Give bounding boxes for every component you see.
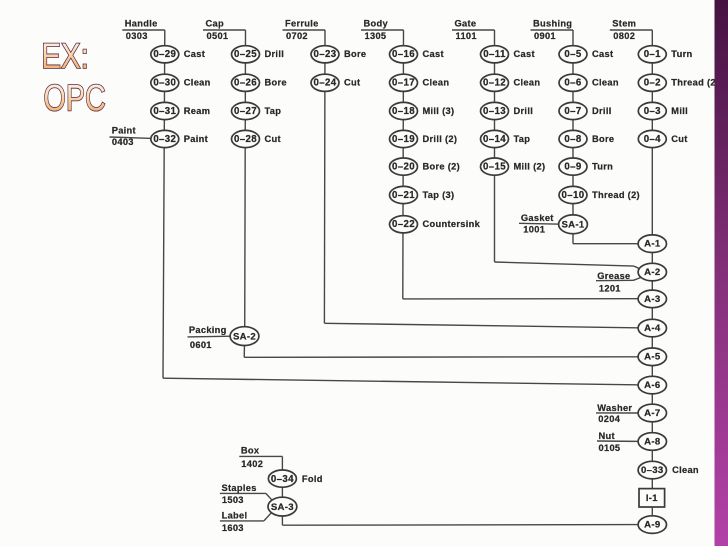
svg-text:Nut: Nut xyxy=(599,431,615,441)
svg-text:0–17: 0–17 xyxy=(392,78,415,89)
svg-text:Clean: Clean xyxy=(423,78,450,88)
svg-text:Tap (3): Tap (3) xyxy=(423,190,455,200)
svg-text:Packing: Packing xyxy=(189,325,227,335)
svg-text:0–15: 0–15 xyxy=(483,161,506,172)
svg-text:Countersink: Countersink xyxy=(423,219,481,229)
svg-text:0–19: 0–19 xyxy=(392,134,415,145)
svg-text:1402: 1402 xyxy=(241,459,263,469)
svg-text:0–32: 0–32 xyxy=(153,134,176,145)
svg-text:0–1: 0–1 xyxy=(644,49,661,60)
svg-text:Bushing: Bushing xyxy=(533,18,572,28)
svg-text:0204: 0204 xyxy=(598,414,620,424)
svg-text:Bore (2): Bore (2) xyxy=(423,161,461,171)
svg-text:Cast: Cast xyxy=(592,49,613,59)
svg-text:Fold: Fold xyxy=(302,474,323,484)
svg-text:Body: Body xyxy=(364,18,389,28)
svg-text:SA-1: SA-1 xyxy=(561,220,584,231)
svg-text:0901: 0901 xyxy=(534,31,556,41)
svg-text:Ream: Ream xyxy=(184,106,211,116)
svg-text:Grease: Grease xyxy=(597,271,630,281)
svg-text:0105: 0105 xyxy=(599,443,621,453)
svg-text:0–2: 0–2 xyxy=(644,78,661,89)
svg-text:Bore: Bore xyxy=(265,78,287,88)
svg-text:Label: Label xyxy=(222,511,248,521)
svg-text:0–6: 0–6 xyxy=(564,78,581,89)
svg-text:0–21: 0–21 xyxy=(392,190,415,201)
svg-text:1001: 1001 xyxy=(523,225,545,235)
svg-text:0–13: 0–13 xyxy=(483,106,506,117)
svg-text:Ferrule: Ferrule xyxy=(285,18,319,28)
svg-text:Tap: Tap xyxy=(514,134,531,144)
svg-text:Drill: Drill xyxy=(592,106,612,116)
svg-text:1305: 1305 xyxy=(365,31,387,41)
svg-text:Cut: Cut xyxy=(265,134,281,144)
svg-text:1201: 1201 xyxy=(599,284,621,294)
svg-text:Turn: Turn xyxy=(671,49,692,59)
svg-text:0702: 0702 xyxy=(286,31,308,41)
svg-text:Thread (2): Thread (2) xyxy=(671,78,719,88)
svg-text:Mill (2): Mill (2) xyxy=(514,161,546,171)
svg-text:Clean: Clean xyxy=(514,78,541,88)
svg-text:A-8: A-8 xyxy=(644,436,661,447)
svg-text:0601: 0601 xyxy=(190,340,212,350)
svg-text:Clean: Clean xyxy=(672,465,699,475)
svg-text:1101: 1101 xyxy=(456,31,477,41)
svg-text:A-1: A-1 xyxy=(644,239,661,250)
svg-text:Cast: Cast xyxy=(184,49,205,59)
svg-text:Paint: Paint xyxy=(184,134,208,144)
svg-text:Clean: Clean xyxy=(184,78,211,88)
svg-text:0–16: 0–16 xyxy=(392,49,415,60)
svg-text:Cut: Cut xyxy=(344,78,360,88)
svg-text:0–27: 0–27 xyxy=(234,106,257,117)
svg-text:1503: 1503 xyxy=(222,495,244,505)
svg-text:Bore: Bore xyxy=(592,134,614,144)
svg-text:A-2: A-2 xyxy=(644,267,660,278)
svg-text:0–10: 0–10 xyxy=(562,190,585,201)
svg-text:Tap: Tap xyxy=(265,106,282,116)
svg-text:0–7: 0–7 xyxy=(564,106,581,117)
svg-text:Gasket: Gasket xyxy=(521,213,554,223)
svg-text:0802: 0802 xyxy=(613,31,635,41)
svg-text:Handle: Handle xyxy=(125,18,158,28)
svg-text:Staples: Staples xyxy=(222,483,257,493)
svg-text:0–26: 0–26 xyxy=(234,78,257,89)
svg-text:Mill: Mill xyxy=(671,106,688,116)
svg-text:0–8: 0–8 xyxy=(564,134,581,145)
svg-text:Washer: Washer xyxy=(597,403,632,413)
svg-text:EX:: EX: xyxy=(41,37,89,76)
svg-text:0403: 0403 xyxy=(112,137,134,147)
svg-text:0–23: 0–23 xyxy=(314,49,337,60)
svg-text:Cast: Cast xyxy=(514,49,535,59)
svg-text:SA-3: SA-3 xyxy=(271,502,294,513)
svg-text:0–14: 0–14 xyxy=(483,134,506,145)
svg-text:0–24: 0–24 xyxy=(314,78,337,89)
svg-text:Stem: Stem xyxy=(612,18,636,28)
svg-text:1603: 1603 xyxy=(222,523,244,533)
svg-text:0–34: 0–34 xyxy=(271,474,294,485)
svg-text:Bore: Bore xyxy=(344,49,366,59)
svg-text:0–3: 0–3 xyxy=(644,106,661,117)
svg-text:0–25: 0–25 xyxy=(234,49,257,60)
svg-text:0–12: 0–12 xyxy=(483,78,506,89)
svg-text:I-1: I-1 xyxy=(646,492,658,503)
svg-text:A-4: A-4 xyxy=(644,323,661,334)
svg-text:Drill: Drill xyxy=(265,49,285,59)
svg-text:0–29: 0–29 xyxy=(153,49,176,60)
svg-text:Thread (2): Thread (2) xyxy=(592,190,640,200)
svg-text:0–28: 0–28 xyxy=(234,134,257,145)
svg-text:0–4: 0–4 xyxy=(644,134,661,145)
svg-text:A-3: A-3 xyxy=(644,294,660,305)
svg-text:SA-2: SA-2 xyxy=(233,331,256,342)
svg-text:OPC: OPC xyxy=(44,78,106,119)
svg-text:Gate: Gate xyxy=(455,18,477,28)
svg-text:A-6: A-6 xyxy=(644,380,660,391)
svg-text:0–18: 0–18 xyxy=(392,106,415,117)
svg-text:Turn: Turn xyxy=(592,161,613,171)
svg-text:0–5: 0–5 xyxy=(564,49,581,60)
svg-text:Cast: Cast xyxy=(423,49,444,59)
svg-text:A-7: A-7 xyxy=(644,408,660,419)
svg-text:A-5: A-5 xyxy=(644,352,661,363)
svg-text:Cap: Cap xyxy=(206,18,224,28)
svg-text:Cut: Cut xyxy=(671,134,687,144)
svg-text:Paint: Paint xyxy=(112,126,136,136)
svg-text:0–22: 0–22 xyxy=(392,219,415,230)
svg-text:0–31: 0–31 xyxy=(153,106,176,117)
svg-text:A-9: A-9 xyxy=(644,520,660,531)
svg-text:Clean: Clean xyxy=(592,78,619,88)
svg-text:0–9: 0–9 xyxy=(564,161,581,172)
svg-text:Drill: Drill xyxy=(514,106,534,116)
svg-text:Drill (2): Drill (2) xyxy=(423,134,458,144)
svg-text:0–20: 0–20 xyxy=(392,161,415,172)
svg-text:0303: 0303 xyxy=(126,31,148,41)
svg-text:Box: Box xyxy=(241,446,260,456)
svg-text:0501: 0501 xyxy=(207,31,229,41)
svg-text:0–11: 0–11 xyxy=(483,49,506,60)
svg-text:0–33: 0–33 xyxy=(641,465,664,476)
svg-text:Mill (3): Mill (3) xyxy=(423,106,455,116)
svg-text:0–30: 0–30 xyxy=(153,78,176,89)
